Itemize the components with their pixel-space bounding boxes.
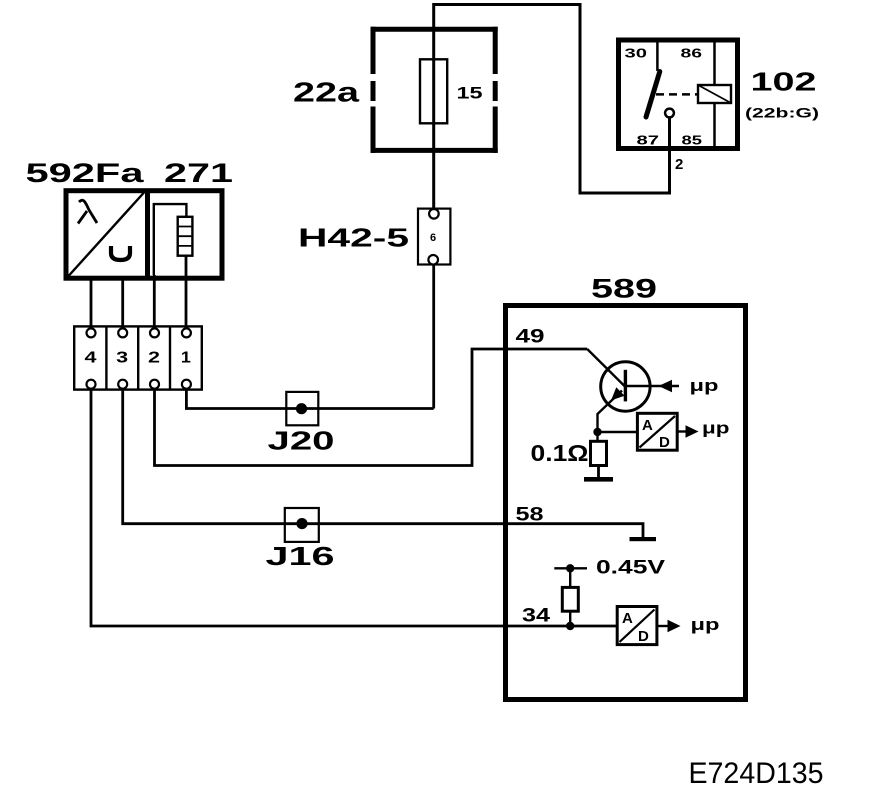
relay 30 terminal stub bbox=[656, 40, 659, 71]
junction J16 bbox=[285, 508, 319, 542]
A/D converter U2 bbox=[617, 607, 657, 645]
svg-text:6: 6 bbox=[430, 232, 436, 244]
svg-text:87: 87 bbox=[637, 133, 660, 148]
pin circles bottom bbox=[87, 380, 96, 389]
svg-text:D: D bbox=[659, 434, 670, 451]
relay coil K bbox=[698, 85, 731, 103]
fuse 15 bbox=[420, 59, 447, 123]
svg-text:H42-5: H42-5 bbox=[298, 223, 409, 253]
pin circles top bbox=[87, 328, 96, 337]
svg-text:271: 271 bbox=[164, 158, 233, 188]
relay actuation dashed link bbox=[656, 93, 698, 96]
svg-text:μp: μp bbox=[702, 419, 730, 438]
ground bar 58 bbox=[630, 537, 657, 541]
reference 0.45V node bbox=[554, 567, 587, 569]
svg-text:A: A bbox=[642, 417, 653, 434]
svg-text:58: 58 bbox=[516, 504, 544, 526]
svg-text:85: 85 bbox=[682, 133, 703, 148]
transistor base bar bbox=[624, 370, 627, 402]
A/D converter U1 bbox=[637, 413, 677, 450]
heater resistor bbox=[178, 217, 193, 256]
connector strip 4-3-2-1 bbox=[74, 326, 202, 389]
lambda symbol bbox=[78, 200, 97, 223]
svg-text:μp: μp bbox=[691, 615, 720, 634]
svg-text:0.1Ω: 0.1Ω bbox=[531, 440, 589, 466]
wire pin1 to J20 row bbox=[186, 389, 433, 409]
pull-up resistor R bbox=[569, 571, 571, 587]
fuse holder 22a box (dashed thick frame) bbox=[371, 27, 498, 153]
ground (shunt) bbox=[584, 477, 613, 482]
svg-text:49: 49 bbox=[516, 326, 545, 348]
wire from fuse 15 top rail bbox=[434, 5, 670, 210]
svg-text:102: 102 bbox=[751, 67, 817, 97]
svg-text:0.45V: 0.45V bbox=[596, 558, 665, 579]
svg-text:J20: J20 bbox=[268, 426, 335, 456]
heater loop wire bbox=[154, 204, 187, 275]
transistor Q emitter input diagonal bbox=[587, 349, 625, 387]
junction J20 bbox=[286, 392, 318, 425]
svg-text:J16: J16 bbox=[266, 541, 335, 571]
wire pin3 to J16 / 58 row bbox=[123, 389, 643, 538]
svg-text:86: 86 bbox=[681, 46, 703, 61]
transistor base lead from uP with arrow bbox=[625, 385, 679, 387]
svg-text:592Fa: 592Fa bbox=[26, 158, 146, 188]
svg-text:μp: μp bbox=[690, 376, 719, 395]
node junction (emitter / shunt / A-D) bbox=[593, 428, 601, 436]
svg-text:1: 1 bbox=[181, 350, 191, 367]
transistor circle bbox=[601, 362, 650, 411]
A/D 2 output arrow to uP bbox=[657, 625, 668, 627]
svg-text:2: 2 bbox=[675, 156, 683, 173]
svg-text:15: 15 bbox=[457, 84, 483, 103]
svg-text:589: 589 bbox=[591, 274, 657, 304]
U symbol bbox=[111, 246, 130, 260]
svg-text:4: 4 bbox=[85, 350, 97, 367]
svg-text:(22b:G): (22b:G) bbox=[745, 105, 819, 121]
connector H42-5 bbox=[418, 209, 450, 265]
svg-text:30: 30 bbox=[625, 46, 648, 61]
wire node to A/D 1 bbox=[598, 431, 638, 433]
svg-text:34: 34 bbox=[522, 605, 550, 627]
svg-text:22a: 22a bbox=[293, 77, 360, 108]
A/D 1 output arrow to uP bbox=[677, 430, 686, 432]
relay contact circle pin 2 bbox=[665, 109, 674, 118]
relay 102 box bbox=[619, 40, 738, 149]
svg-text:D: D bbox=[638, 628, 649, 645]
sensor diagonal bbox=[69, 193, 145, 277]
shunt resistor 0.1 ohm bbox=[596, 436, 598, 441]
wire pin4 to 34 row bbox=[91, 389, 617, 626]
wire pin2 to 49 input bbox=[155, 349, 588, 466]
ECU 589 box bbox=[506, 306, 746, 700]
divider bbox=[145, 191, 150, 279]
wire H42-5 to J20 row bbox=[432, 265, 435, 409]
svg-text:E724D135: E724D135 bbox=[689, 757, 824, 790]
oxygen sensor 592Fa / heater 271 box bbox=[66, 191, 222, 279]
svg-text:A: A bbox=[622, 610, 633, 627]
node junction (34 / pull-up / A-D) bbox=[566, 622, 574, 630]
svg-text:2: 2 bbox=[148, 350, 160, 367]
svg-text:3: 3 bbox=[116, 350, 128, 367]
relay coil leads 86/85 bbox=[713, 43, 716, 147]
wires sensor box to connector strip bbox=[91, 256, 186, 329]
transistor emitter lead with arrow bbox=[598, 391, 623, 433]
relay switch arm bbox=[646, 72, 660, 118]
